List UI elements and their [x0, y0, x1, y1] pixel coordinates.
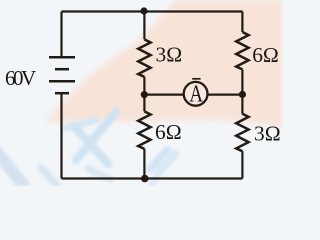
watermark glyph backslash — [74, 126, 108, 164]
wire right branch lower — [241, 151, 243, 178]
wire right middle — [241, 69, 243, 113]
peach diagonal band background — [44, 0, 283, 128]
svg-text:6Ω: 6Ω — [155, 120, 182, 144]
node middle-left junction dot — [141, 91, 148, 98]
watermark glyph bar — [66, 120, 96, 128]
node middle-right junction dot — [239, 91, 246, 98]
watermark right tail below wire — [152, 176, 157, 183]
ammeter A1 circle — [184, 82, 208, 106]
wire middle branch upper — [143, 12, 145, 40]
resistor 6ohm top-right — [236, 32, 248, 69]
svg-text:60V: 60V — [5, 66, 36, 90]
svg-text:6Ω: 6Ω — [252, 43, 279, 67]
watermark glyph tail — [88, 168, 111, 179]
wire middle branch lower — [143, 149, 145, 179]
wire ammeter left — [144, 93, 183, 95]
svg-text:3Ω: 3Ω — [156, 43, 183, 67]
wire left lower — [60, 94, 62, 179]
resistor 6ohm bottom-middle — [138, 111, 150, 148]
background base — [0, 0, 283, 186]
svg-text:3Ω: 3Ω — [254, 122, 281, 146]
wire bottom — [62, 177, 243, 179]
node top junction dot — [140, 7, 147, 14]
resistor 3ohm bottom-right — [236, 114, 248, 151]
battery B1 plate short — [55, 68, 69, 71]
watermark small stroke — [41, 168, 56, 184]
node bottom junction dot — [141, 175, 149, 183]
svg-text:A: A — [189, 80, 203, 107]
wire middle between resistor and node — [143, 77, 145, 95]
watermark glyph slash — [76, 112, 116, 160]
watermark right diagonal — [150, 150, 167, 169]
wire ammeter right — [208, 93, 243, 95]
wire top — [62, 10, 243, 12]
battery B1 plate short bottom — [55, 92, 69, 95]
wire middle node to bottom resistor — [143, 95, 145, 112]
resistor 3ohm top-middle — [138, 39, 150, 76]
watermark right diagonal 2 — [159, 154, 175, 172]
battery B1 plate long — [49, 80, 75, 83]
wire right branch upper — [241, 12, 243, 33]
wire left upper — [60, 12, 62, 58]
battery B1 plate long top — [49, 56, 75, 59]
watermark corner band — [0, 112, 175, 186]
ammeter terminal tick — [192, 78, 200, 80]
